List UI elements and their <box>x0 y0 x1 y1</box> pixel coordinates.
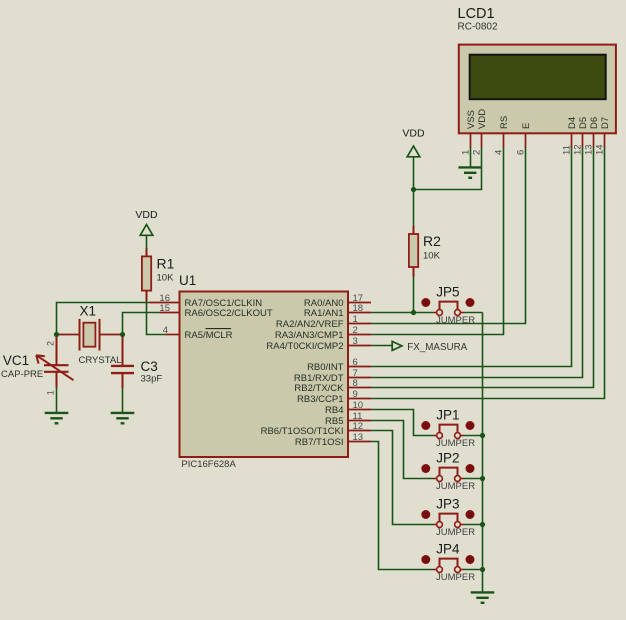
svg-text:RS: RS <box>499 116 510 129</box>
LCD display LCD1 (RC-0802) <box>458 6 616 133</box>
svg-text:18: 18 <box>353 303 364 314</box>
svg-text:2: 2 <box>468 423 472 430</box>
svg-text:1: 1 <box>424 512 428 519</box>
svg-text:1: 1 <box>461 150 472 155</box>
svg-text:R1: R1 <box>157 256 175 272</box>
svg-text:RA6/OSC2/CLKOUT: RA6/OSC2/CLKOUT <box>185 308 273 319</box>
ground (LCD VSS) <box>458 167 482 177</box>
wire JP5 pin2 to ground bus <box>464 312 483 314</box>
svg-text:CAP-PRE: CAP-PRE <box>1 369 43 380</box>
svg-text:9: 9 <box>353 389 358 400</box>
wire crystal-left to U1 pin16 (OSC1) <box>57 303 150 335</box>
wire U1 pin10 (RB4) to JP1 pin1 <box>371 410 433 436</box>
wire VDD flag to R1 top <box>146 236 148 248</box>
svg-text:JP5: JP5 <box>436 285 459 300</box>
svg-text:2: 2 <box>472 150 483 155</box>
resistor R1 <box>142 248 175 302</box>
U1 left pin stubs <box>150 303 180 335</box>
svg-text:RA2/AN2/VREF: RA2/AN2/VREF <box>276 319 344 330</box>
node VDD rail junction <box>411 187 416 192</box>
wire U1 pin2 (RA3) to LCD RS <box>371 147 504 335</box>
svg-text:1: 1 <box>424 423 428 430</box>
svg-text:JUMPER: JUMPER <box>436 572 475 583</box>
wire C3 bottom to ground <box>122 388 124 413</box>
ground (jumper bus) <box>471 592 495 602</box>
svg-text:12: 12 <box>573 144 584 155</box>
capacitor C3 <box>111 337 162 388</box>
svg-text:RC-0802: RC-0802 <box>458 22 498 33</box>
svg-text:2: 2 <box>468 300 472 307</box>
wire LCD VDD (pin2) to VDD rail <box>414 147 482 190</box>
wire crystal-right to U1 pin15 (OSC2) <box>123 313 160 335</box>
svg-text:VDD: VDD <box>477 109 488 129</box>
svg-text:6: 6 <box>353 357 358 368</box>
variable capacitor VC1 <box>1 337 74 395</box>
svg-text:4: 4 <box>494 150 505 155</box>
crystal X1 <box>59 304 121 366</box>
U1 right pin names <box>261 298 345 448</box>
node JP4-bus junction <box>480 567 485 572</box>
wire U1 pin18 (RA1) to JP5 pin1 <box>371 312 433 314</box>
node RA1/R2/JP5 junction <box>411 310 416 315</box>
jumper JP4 (JP4) <box>421 542 475 584</box>
wire JP3 pin2 to ground bus <box>464 524 483 526</box>
U1 right pin stubs <box>348 303 371 442</box>
svg-text:JP1: JP1 <box>436 408 459 423</box>
svg-text:RB6/T1OSO/T1CKI: RB6/T1OSO/T1CKI <box>261 426 344 437</box>
svg-text:6: 6 <box>516 150 527 155</box>
svg-text:2: 2 <box>353 325 358 336</box>
node JP2-bus junction <box>480 476 485 481</box>
svg-text:FX_MASURA: FX_MASURA <box>407 342 467 353</box>
svg-text:10: 10 <box>353 400 364 411</box>
svg-text:10K: 10K <box>423 251 441 262</box>
svg-text:JP4: JP4 <box>436 542 460 557</box>
svg-text:D5: D5 <box>578 117 589 129</box>
svg-text:1: 1 <box>424 557 428 564</box>
wire U1 pin6 (RB0) to LCD D4 <box>371 147 572 367</box>
wire U1 pin7 (RB1) to LCD D5 <box>371 147 583 378</box>
wire JP1 pin2 to ground bus <box>464 435 483 437</box>
svg-text:RA4/T0CKI/CMP2: RA4/T0CKI/CMP2 <box>266 341 343 352</box>
svg-text:33pF: 33pF <box>141 374 163 385</box>
node crystal-left / VC1 junction <box>54 332 59 337</box>
wire R1 bottom to U1 pin4 (MCLR) <box>147 301 166 335</box>
svg-text:PIC16F628A: PIC16F628A <box>181 459 236 470</box>
svg-text:RA5/MCLR: RA5/MCLR <box>185 330 233 341</box>
svg-text:JUMPER: JUMPER <box>436 438 475 449</box>
svg-text:D6: D6 <box>589 117 600 129</box>
svg-text:R2: R2 <box>423 233 441 249</box>
wire U1 pin3 (RA4) to FX_MASURA terminal <box>371 345 392 347</box>
svg-text:RA1/AN1: RA1/AN1 <box>304 308 344 319</box>
U1 left pin numbers <box>159 293 170 336</box>
LCD1 pin stubs <box>471 133 605 147</box>
ground (VC1) <box>45 413 69 423</box>
svg-text:13: 13 <box>584 144 595 155</box>
svg-text:2: 2 <box>468 512 472 519</box>
wire U1 pin8 (RB2) to LCD D6 <box>371 147 594 388</box>
wire U1 pin11 (RB5) to JP2 pin1 <box>371 421 433 479</box>
U1 left pin names <box>185 298 273 341</box>
svg-text:2: 2 <box>468 466 472 473</box>
svg-text:14: 14 <box>595 144 606 155</box>
svg-text:VC1: VC1 <box>3 353 29 368</box>
svg-text:2: 2 <box>468 557 472 564</box>
LCD1 pin names <box>466 109 611 129</box>
svg-text:RB4: RB4 <box>325 405 343 416</box>
wire U1 pin13 (RB7) to JP4 pin1 <box>371 442 433 570</box>
wire VDD flag 2 stem <box>413 157 415 190</box>
svg-text:1: 1 <box>424 300 428 307</box>
wire ground bus vertical <box>482 313 484 593</box>
svg-text:JUMPER: JUMPER <box>436 481 475 492</box>
svg-text:D7: D7 <box>600 117 611 129</box>
svg-text:1: 1 <box>353 314 358 325</box>
wire VDD rail to R2 top <box>413 190 415 227</box>
wire JP4 pin2 to ground bus <box>464 569 483 571</box>
jumper JP1 (JP1) <box>421 408 475 450</box>
ground (C3) <box>111 413 135 423</box>
power flag VDD (R1) <box>135 209 158 235</box>
svg-text:3: 3 <box>353 336 358 347</box>
svg-text:8: 8 <box>353 378 358 389</box>
wire JP2 pin2 to ground bus <box>464 478 483 480</box>
svg-text:JUMPER: JUMPER <box>436 315 475 326</box>
svg-text:RA3/AN3/CMP1: RA3/AN3/CMP1 <box>275 330 344 341</box>
svg-text:JUMPER: JUMPER <box>436 527 475 538</box>
wire U1 pin9 (RB3) to LCD D7 <box>371 147 605 399</box>
svg-text:VDD: VDD <box>135 209 158 221</box>
svg-text:CRYSTAL: CRYSTAL <box>79 355 122 366</box>
node crystal-right / C3 junction <box>120 332 125 337</box>
jumper JP2 (JP2) <box>421 451 475 493</box>
svg-text:E: E <box>521 123 532 129</box>
svg-text:4: 4 <box>163 325 168 336</box>
svg-text:RB2/TX/CK: RB2/TX/CK <box>294 383 344 394</box>
svg-text:JP2: JP2 <box>436 451 459 466</box>
svg-text:X1: X1 <box>80 304 97 319</box>
terminal FX_MASURA <box>392 341 467 352</box>
wire VC1 bottom to ground <box>56 388 58 414</box>
svg-text:C3: C3 <box>141 359 158 374</box>
power flag VDD (R2/LCD) <box>402 128 425 157</box>
wire R2 bottom to RA1 net <box>413 276 415 313</box>
svg-text:RB3/CCP1: RB3/CCP1 <box>297 394 343 405</box>
svg-text:1: 1 <box>424 466 428 473</box>
svg-text:13: 13 <box>353 432 364 443</box>
svg-text:15: 15 <box>159 303 170 314</box>
U1 right pin numbers <box>353 293 364 443</box>
resistor R2 <box>409 226 441 277</box>
svg-text:11: 11 <box>562 145 573 155</box>
svg-text:12: 12 <box>353 421 364 432</box>
svg-text:JP3: JP3 <box>436 497 459 512</box>
jumper JP3 (JP3) <box>421 497 475 539</box>
svg-text:2: 2 <box>46 341 56 346</box>
svg-text:1: 1 <box>46 390 56 395</box>
svg-text:D4: D4 <box>567 117 578 129</box>
svg-text:10K: 10K <box>157 273 175 284</box>
wire U1 pin12 (RB6) to JP3 pin1 <box>371 431 433 525</box>
wire LCD VSS (pin1) to ground <box>470 147 472 168</box>
svg-text:RB7/T1OSI: RB7/T1OSI <box>295 437 344 448</box>
svg-text:U1: U1 <box>179 273 196 288</box>
LCD1 pin numbers <box>461 144 606 155</box>
node JP1-bus junction <box>480 433 485 438</box>
svg-text:LCD1: LCD1 <box>458 6 495 22</box>
microcontroller U1 (PIC16F628A) <box>179 273 348 470</box>
svg-text:VDD: VDD <box>402 128 425 140</box>
svg-text:VSS: VSS <box>466 110 477 129</box>
svg-text:RB0/INT: RB0/INT <box>307 362 344 373</box>
jumper JP5 (JP5) <box>421 285 475 327</box>
node JP3-bus junction <box>480 522 485 527</box>
wire U1 pin1 (RA2) to LCD E <box>371 147 526 324</box>
